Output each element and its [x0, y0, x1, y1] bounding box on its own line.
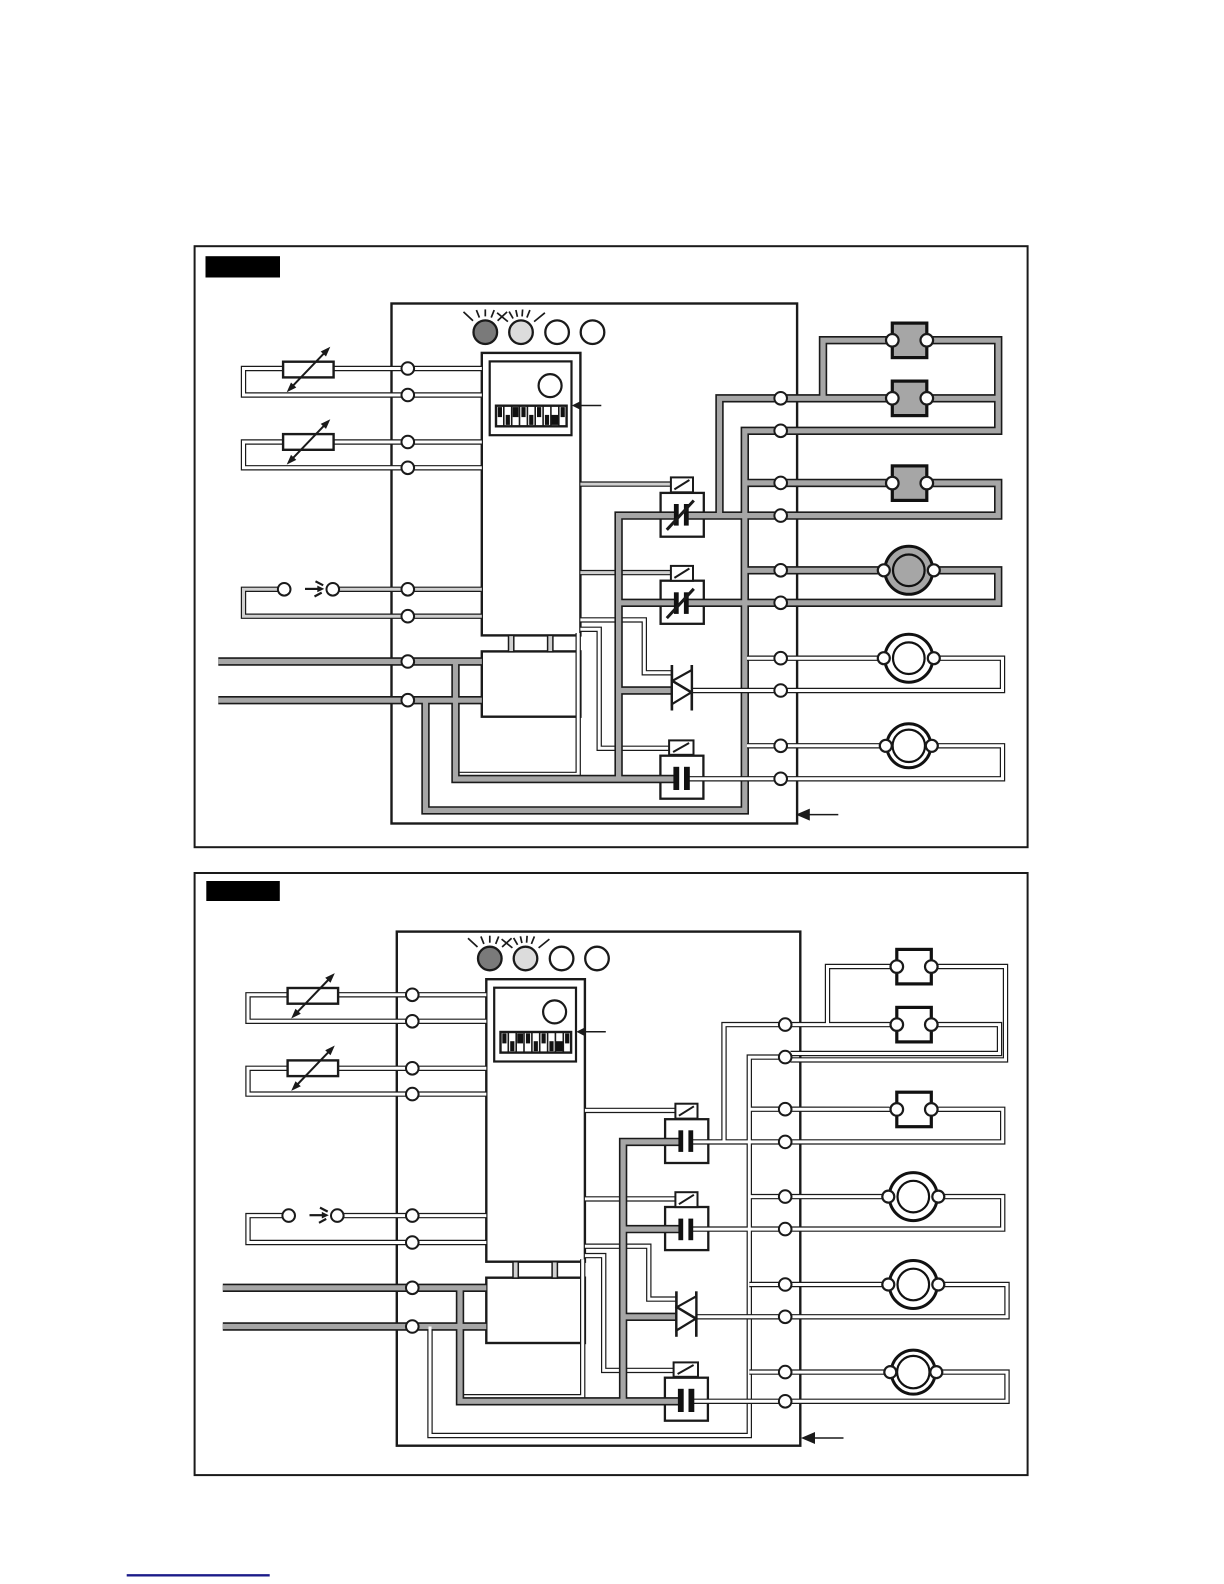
wire: neutral branch down	[430, 1057, 785, 1435]
wire: relay RY1 coil wire	[585, 1109, 676, 1112]
LED D4	[585, 947, 609, 971]
solenoid valve SV2	[892, 381, 927, 416]
wire: triac output wire	[692, 689, 781, 692]
motor M3	[884, 1350, 942, 1394]
motor M2	[882, 1261, 944, 1309]
potentiometer VR1	[288, 973, 339, 1018]
solenoid valve SV1 terminals	[886, 334, 933, 347]
potentiometer VR2	[283, 419, 334, 464]
sensor/control wire outlines	[248, 967, 1006, 1397]
wire: pot VR1 signal wire	[334, 367, 482, 370]
relay RY2 coil flag and contact	[667, 566, 694, 618]
wire: valve SV2 return stub	[927, 396, 999, 401]
relay RY2 body	[661, 581, 704, 624]
wire: sensor return wire	[244, 589, 482, 616]
solenoid valve SV2 terminals	[891, 1018, 938, 1031]
transformer block	[482, 651, 581, 716]
input terminal row	[406, 989, 419, 1333]
relay RY3 coil flag and contact	[674, 1362, 698, 1412]
wire: mains lead L	[218, 659, 482, 664]
motor M2	[878, 634, 940, 682]
potentiometer VR2	[288, 1046, 339, 1091]
wire: mains lead N	[218, 698, 482, 703]
relay RY2 coil flag and contact	[675, 1192, 697, 1240]
photo sensor PS1	[282, 1208, 343, 1223]
outer frame	[195, 246, 1028, 847]
relay RY1 coil flag and contact	[675, 1104, 697, 1152]
relay RY3 body	[660, 756, 703, 799]
title label (redacted)	[206, 256, 281, 277]
load output wire outlines	[691, 1285, 1007, 1402]
controller board outline	[397, 932, 801, 1446]
LED D2	[497, 310, 545, 345]
wire: valve SV3 return loop	[785, 1109, 1003, 1142]
relay RY2 body	[665, 1207, 708, 1250]
wire: motor M1 return loop	[781, 570, 999, 603]
outer frame	[195, 873, 1028, 1475]
pointer arrow to DIP switch	[576, 1027, 606, 1037]
output terminal row	[779, 1018, 792, 1407]
wire: relay RY2 output wire	[686, 600, 780, 605]
solenoid valve SV1 terminals	[891, 960, 938, 973]
wire: valve SV3 return loop	[781, 483, 999, 516]
wire: motor M1 feed wire	[785, 1195, 889, 1198]
wire: motor M2 return loop	[785, 1285, 1007, 1317]
wire: triac feed stub	[619, 688, 672, 693]
pump motor M1	[878, 546, 940, 594]
wire: sensor return wire	[248, 1216, 486, 1243]
sensor/control wire outlines	[244, 369, 673, 775]
wire: valve SV1/SV2 feed wire	[781, 396, 893, 401]
wire: valve SV2 return stub	[791, 1025, 1000, 1054]
motor M3	[880, 724, 938, 768]
solenoid valve SV3 terminals	[891, 1103, 938, 1116]
wire: relay RY2 feed stub	[623, 1226, 681, 1231]
wire: motor M1 return loop	[785, 1197, 1003, 1230]
wire: pot VR2 return wire	[244, 442, 482, 468]
relay RY1 coil flag and contact	[667, 477, 694, 529]
wire: relay RY1 coil wire	[580, 483, 671, 486]
wire: motor M1 feed stub	[749, 1195, 785, 1198]
wire: motor M1 feed stub	[745, 568, 781, 573]
wire: relay RY3 output wire	[687, 777, 781, 780]
wire: live branch to relay RY3	[456, 662, 677, 780]
input terminal row	[402, 362, 415, 706]
wire: relay RY1 output wire	[686, 513, 780, 518]
wire: triac gate wire	[585, 1246, 677, 1299]
wire: sensor signal wire	[344, 1214, 487, 1217]
wire: motor M2 return loop	[781, 658, 1003, 690]
setting block on PCB	[490, 361, 572, 435]
solenoid valve SV3	[897, 1092, 932, 1127]
pointer arrow to controller board	[796, 809, 839, 821]
LED D2	[502, 936, 550, 971]
LED D1	[464, 309, 508, 344]
footer rule	[127, 1574, 270, 1576]
LED D3	[550, 947, 574, 971]
wire: terminal bus A	[724, 1025, 785, 1142]
wire: motor M2 feed wire	[747, 657, 885, 660]
relay RY1 body	[665, 1119, 708, 1163]
wire: motor M3 feed wire	[747, 744, 887, 747]
wire: motor M2 feed wire	[749, 1283, 889, 1286]
wire: pot VR1 return wire	[244, 369, 482, 396]
pump motor M1	[882, 1173, 944, 1221]
relay RY3 coil flag and contact	[669, 740, 693, 790]
rotary switch	[543, 1000, 566, 1023]
solenoid valve SV2	[897, 1007, 932, 1042]
wire: pot VR2 signal wire	[338, 1067, 486, 1070]
wire: mains lead L	[223, 1285, 487, 1290]
wire: valve SV3 feed stub	[745, 480, 781, 485]
wire: motor M1 feed wire	[781, 568, 885, 573]
wire: terminal bus A	[720, 398, 781, 515]
solenoid valve SV3 terminals	[886, 477, 933, 490]
triac Q1	[672, 665, 692, 711]
wire: live branch to relay RY3	[460, 1288, 681, 1402]
wire: motor M3 return loop	[785, 1372, 1007, 1401]
wire: pot VR1 return wire	[248, 995, 486, 1022]
wire: zero-cross sense wire	[459, 633, 578, 774]
controller board outline	[392, 304, 798, 824]
DIP switch bank	[496, 406, 567, 427]
wire: relay RY3 coil wire	[580, 629, 669, 748]
wire: zero-cross sense wire	[464, 1259, 583, 1396]
wire: motor M3 feed wire	[749, 1371, 891, 1374]
wire: relay RY1 output wire	[691, 1140, 785, 1143]
wire: mains lead N	[223, 1324, 487, 1329]
wire: valve SV1/SV2 feed wire	[785, 1023, 897, 1026]
transformer block	[486, 1278, 585, 1343]
wire: relay RY2 feed stub	[619, 600, 677, 605]
triac Q1	[676, 1291, 696, 1337]
title label (redacted)	[206, 881, 279, 901]
wire: relay RY2 output wire	[691, 1228, 785, 1231]
wire: neutral bus	[426, 431, 781, 811]
wire: pot VR1 signal wire	[338, 993, 486, 996]
pointer arrow to DIP switch	[572, 401, 602, 411]
rotary switch	[539, 374, 562, 397]
wire: valve SV1/SV2 return loop	[781, 340, 999, 431]
wire: valve SV1 feed branch	[823, 340, 892, 398]
relay RY1 body	[661, 493, 704, 537]
DIP switch bank	[501, 1032, 572, 1053]
main PCB (CPU board)	[482, 353, 581, 636]
solenoid valve SV1	[892, 323, 927, 358]
wire: valve SV3 circuit	[781, 480, 893, 485]
wire: triac feed stub	[623, 1314, 676, 1319]
LED D3	[545, 320, 569, 344]
wire: relay RY2 coil wire	[585, 1197, 676, 1200]
LED D1	[468, 936, 512, 971]
pointer arrow to controller board	[801, 1432, 844, 1444]
wire: valve SV1 feed branch	[828, 967, 897, 1025]
LED D4	[581, 320, 605, 344]
wire: sensor signal wire	[339, 588, 482, 591]
wire: valve SV3 feed stub	[749, 1108, 785, 1111]
setting block on PCB	[494, 988, 576, 1062]
power distribution wire outlines	[218, 340, 998, 810]
wire: triac output wire	[696, 1315, 785, 1318]
solenoid valve SV1	[897, 949, 932, 984]
connector bar 2	[548, 635, 553, 651]
photo sensor PS1	[278, 581, 339, 596]
wire: relay feed chain	[619, 516, 677, 779]
connector bar 1	[513, 1262, 518, 1278]
output terminal row	[774, 392, 787, 785]
main PCB (CPU board)	[486, 979, 585, 1261]
wire: relay feed chain	[623, 1142, 681, 1401]
wire: relay RY2 coil wire	[580, 571, 671, 574]
relay RY3 body	[665, 1378, 708, 1421]
wire: relay RY3 output wire	[691, 1400, 785, 1403]
wire: motor M3 return loop	[781, 746, 1003, 779]
wire: relay RY3 coil wire	[585, 1256, 674, 1371]
load output wire outlines	[687, 658, 1003, 779]
power distribution wire outlines	[223, 967, 897, 1436]
wire: triac gate wire	[580, 620, 672, 673]
wire: valve SV1/SV2 return loop	[791, 967, 1006, 1060]
wire: valve SV3 circuit	[785, 1108, 897, 1111]
wire: pot VR2 signal wire	[334, 441, 482, 444]
connector bar 2	[552, 1262, 557, 1278]
potentiometer VR1	[283, 347, 334, 392]
solenoid valve SV3	[892, 466, 927, 501]
wire: pot VR2 return wire	[248, 1068, 486, 1094]
connector bar 1	[509, 635, 514, 651]
solenoid valve SV2 terminals	[886, 392, 933, 405]
